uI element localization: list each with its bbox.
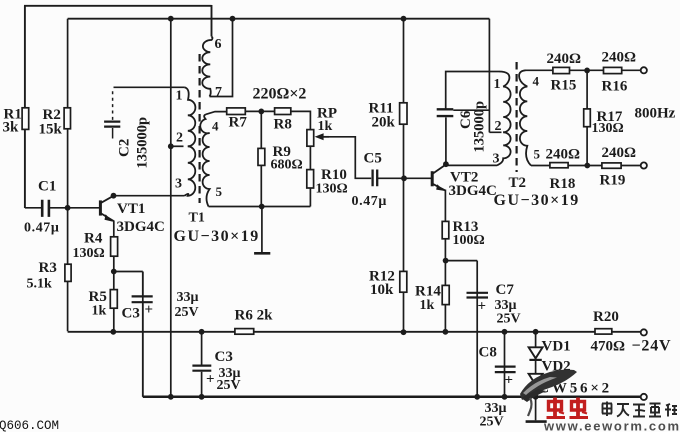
terminal -24V — [641, 329, 647, 335]
resistor R1 3k — [22, 108, 29, 130]
resistor R19 240ohm — [602, 163, 621, 168]
wire T2 tap-1 stub — [489, 71, 499, 73]
svg-text:1k: 1k — [420, 298, 435, 313]
resistor R7 220ohm — [227, 108, 246, 115]
svg-text:240Ω: 240Ω — [547, 51, 582, 67]
svg-text:www.eeworm.com: www.eeworm.com — [543, 419, 680, 432]
wire R9 branch — [260, 111, 262, 206]
node feedback/bottom rail — [168, 394, 174, 400]
T1 primary winding (pins 1-2-3) — [184, 87, 195, 196]
node R12/lower rail — [401, 329, 407, 335]
node R17/R18/R19 — [584, 163, 590, 169]
node C8/bottom rail — [502, 394, 508, 400]
resistor R18 240ohm — [550, 163, 568, 168]
svg-text:R7: R7 — [229, 114, 248, 130]
svg-text:R18: R18 — [550, 176, 576, 192]
svg-text:R3: R3 — [39, 260, 57, 276]
wire RP wiper to C5 — [318, 137, 371, 179]
node C7/bottom rail — [474, 394, 480, 400]
wire C1 left lead — [25, 207, 41, 209]
svg-text:33μ: 33μ — [177, 290, 199, 305]
wire R4/R5/C3 node branch — [114, 272, 143, 397]
zener diode VD1 2CW56 — [529, 347, 543, 358]
node C8/lower rail — [502, 329, 508, 335]
wire feedback line — [170, 19, 172, 397]
svg-text:T1: T1 — [189, 211, 205, 226]
svg-text:4: 4 — [533, 74, 540, 89]
T2 secondary winding (pins 4-5) — [519, 70, 531, 165]
T2 core — [515, 62, 517, 172]
capacitor C2 135000p — [104, 122, 120, 127]
wire C8 branch — [504, 332, 506, 397]
wire R17 branch — [586, 71, 588, 166]
svg-text:240Ω: 240Ω — [602, 49, 637, 65]
svg-text:100Ω: 100Ω — [453, 233, 485, 248]
svg-text:25V: 25V — [217, 378, 241, 393]
watermark bug glyph 2 — [570, 398, 589, 418]
svg-text:130Ω: 130Ω — [592, 121, 624, 136]
svg-text:C5: C5 — [364, 150, 382, 166]
resistor R15 240ohm — [553, 67, 570, 73]
node VD2/bottom rail — [533, 394, 539, 400]
svg-text:R19: R19 — [600, 172, 626, 188]
wire VT1 base — [68, 207, 100, 209]
node VD1/lower rail — [533, 329, 539, 335]
resistor R6 2k — [235, 329, 254, 335]
svg-text:20k: 20k — [372, 114, 396, 130]
resistor R20 470ohm — [595, 329, 612, 334]
svg-text:1: 1 — [494, 77, 501, 92]
svg-text:C3: C3 — [215, 349, 233, 365]
wire ground stem T1 — [261, 207, 263, 253]
svg-text:680Ω: 680Ω — [271, 157, 303, 172]
wire bottom common rail — [143, 396, 641, 399]
node rail/winding7 — [230, 16, 236, 22]
node R5/lower rail — [110, 329, 116, 335]
wire R2/R3 branch — [67, 19, 69, 332]
transistor VT1 3DG4C — [99, 200, 102, 215]
node C5/R11/VT2 base — [401, 175, 407, 181]
capacitor C5 0.47u — [373, 170, 378, 187]
node VT2 collector junction — [443, 161, 449, 167]
svg-text:2: 2 — [176, 130, 183, 145]
svg-text:GU−30×19: GU−30×19 — [174, 228, 260, 245]
svg-text:25V: 25V — [175, 305, 199, 320]
terminal output top — [641, 67, 647, 73]
capacitor C1 0.47u — [42, 200, 49, 217]
svg-text:+: + — [505, 372, 514, 388]
node R9/tap5/ground — [259, 204, 265, 210]
wire lower supply rail — [68, 331, 641, 333]
resistor R10 130ohm — [307, 170, 314, 188]
svg-text:1: 1 — [176, 88, 183, 103]
resistor R16 240ohm — [604, 67, 622, 73]
svg-text:GU−30×19: GU−30×19 — [494, 192, 580, 209]
svg-text:130Ω: 130Ω — [316, 181, 348, 196]
svg-text:C8: C8 — [479, 344, 497, 360]
svg-text:VT1: VT1 — [117, 201, 145, 217]
svg-text:25V: 25V — [497, 312, 521, 327]
wire C2 tap — [114, 86, 185, 88]
svg-text:5.1k: 5.1k — [27, 276, 53, 291]
wire T2 tap-4 to output — [526, 69, 642, 71]
capacitor C7 33u/25V — [467, 293, 489, 298]
svg-text:15k: 15k — [39, 121, 63, 137]
wire C6 bottom lead — [445, 117, 447, 163]
T2 primary winding (pins 1-2-3) — [497, 72, 511, 166]
svg-text:3: 3 — [493, 152, 500, 167]
svg-text:3: 3 — [175, 176, 182, 191]
svg-text:130Ω: 130Ω — [73, 246, 105, 261]
svg-text:25V: 25V — [480, 414, 504, 429]
resistor R13 100ohm — [442, 221, 449, 238]
T1 feedback winding (pins 6-7) — [202, 37, 212, 97]
resistor R9 680ohm — [258, 148, 265, 165]
resistor R5 1k — [110, 290, 117, 309]
T1 core — [199, 54, 201, 203]
resistor R17 130ohm — [584, 109, 591, 127]
svg-text:135000p: 135000p — [135, 117, 151, 169]
svg-text:R20: R20 — [593, 309, 619, 325]
resistor R3 5.1k — [65, 264, 71, 281]
svg-text:3DG4C: 3DG4C — [449, 183, 497, 199]
svg-text:−24V: −24V — [632, 337, 672, 354]
svg-text:+: + — [206, 371, 215, 387]
svg-text:+: + — [478, 298, 487, 314]
capacitor C6 135000p — [437, 109, 454, 116]
node C4/bottom rail — [199, 394, 205, 400]
svg-text:240Ω: 240Ω — [546, 146, 581, 162]
node R14/lower rail — [443, 329, 449, 335]
resistor R4 130ohm — [111, 237, 118, 256]
wire zener branch — [535, 332, 537, 397]
potentiometer RP 1k — [307, 130, 314, 147]
svg-text:R6 2k: R6 2k — [235, 307, 274, 323]
resistor R12 10k — [400, 271, 407, 292]
ground bottom — [526, 420, 547, 423]
svg-text:R15: R15 — [551, 77, 577, 93]
svg-text:0.47μ: 0.47μ — [24, 221, 59, 236]
terminal output bottom — [641, 162, 647, 168]
wire upper supply rail — [68, 18, 490, 20]
wire winding-7 return — [210, 19, 233, 97]
svg-text:R4: R4 — [84, 231, 103, 247]
node rail/R11 — [401, 16, 407, 22]
svg-text:C3: C3 — [122, 306, 140, 322]
node R7/R8/R9 — [258, 109, 264, 115]
svg-text:7: 7 — [215, 85, 222, 100]
transistor VT2 3DG4C — [431, 171, 434, 186]
node rail/feedback — [168, 16, 174, 22]
svg-text:C1: C1 — [38, 179, 56, 195]
node R15/R16/R17 — [584, 68, 590, 74]
svg-text:R8: R8 — [274, 116, 292, 132]
node R4/R5/C3 — [111, 269, 117, 275]
svg-text:240Ω: 240Ω — [602, 145, 637, 161]
capacitor C4 (C3) 33u/25V rail decoupling — [192, 366, 211, 371]
node C4/lower rail — [199, 329, 205, 335]
wire R7-R8 node — [245, 110, 274, 112]
node R13/R14/C7 — [443, 258, 449, 264]
svg-text:R14: R14 — [415, 283, 441, 299]
wire VT1 collector to T1 pin3 — [114, 195, 185, 197]
svg-text:0.47μ: 0.47μ — [352, 194, 387, 209]
svg-text:10k: 10k — [370, 282, 394, 298]
wire T1 tap-5 line — [209, 206, 311, 208]
watermark bug glyph 1 — [547, 398, 566, 418]
wire left rail from top border to C1 — [24, 6, 26, 208]
wire C1 right lead — [50, 207, 68, 209]
wire R11/R12 branch — [403, 19, 405, 333]
svg-text:2: 2 — [495, 119, 502, 134]
ground T1 secondary — [254, 252, 270, 255]
svg-text:1k: 1k — [92, 304, 107, 319]
capacitor C8 33u/25V — [495, 367, 516, 373]
wire T1 tap-4 to R7 — [206, 112, 227, 115]
svg-text:220Ω×2: 220Ω×2 — [253, 85, 307, 102]
resistor R2 15k — [64, 108, 70, 129]
svg-text:6: 6 — [215, 37, 222, 52]
svg-text:470Ω: 470Ω — [591, 338, 626, 354]
svg-text:800Hz: 800Hz — [635, 106, 676, 122]
wire top border — [24, 5, 212, 7]
node tap2 junction — [168, 143, 174, 149]
wire VT2 collector to T2 pin3 — [446, 164, 497, 166]
wire R13/R14/C7 node branch — [446, 261, 478, 397]
wire T1 tap-2 link — [171, 145, 184, 147]
svg-text:R16: R16 — [602, 78, 628, 94]
wire VT1 emitter chain — [113, 221, 115, 332]
wire C6 top link — [446, 72, 490, 109]
node VT1 collector junction — [111, 193, 117, 199]
terminal supply return — [641, 394, 647, 400]
wire T1 winding-6 feed — [211, 5, 213, 37]
svg-text:T2: T2 — [509, 175, 527, 191]
svg-text:C2: C2 — [117, 139, 133, 157]
svg-text:5: 5 — [216, 184, 223, 199]
resistor R8 220ohm — [275, 108, 291, 115]
wire R8 to RP — [291, 111, 311, 206]
node C1/R2/base — [65, 205, 71, 211]
watermark swoosh logo — [520, 370, 577, 400]
wire T2 tap-2 link — [453, 110, 501, 132]
resistor R11 20k — [400, 103, 407, 124]
svg-text:3k: 3k — [3, 120, 20, 136]
resistor R14 1k — [442, 285, 449, 304]
svg-text:Q606.COM: Q606.COM — [0, 419, 59, 432]
wire ground stem below rail — [535, 397, 537, 421]
capacitor C3 33u/25V emitter bypass — [132, 296, 153, 302]
svg-text:1k: 1k — [318, 119, 333, 134]
svg-text:VD1: VD1 — [542, 339, 571, 355]
svg-text:C7: C7 — [496, 282, 515, 298]
wire T2 tap-5 to output — [531, 165, 641, 167]
wire rail right corner — [488, 19, 490, 133]
zener diode VD2 2CW56 — [529, 374, 543, 385]
svg-text:135000p: 135000p — [472, 101, 488, 153]
svg-text:+: + — [145, 302, 154, 318]
watermark site name glyphs — [602, 402, 612, 417]
T1 secondary winding (pins 4-5) — [200, 114, 209, 206]
wire C5 to VT2 base — [378, 177, 431, 179]
svg-text:5: 5 — [534, 147, 541, 162]
svg-text:3DG4C: 3DG4C — [117, 219, 165, 235]
svg-text:4: 4 — [212, 118, 219, 133]
wire VT2 emitter chain — [444, 190, 446, 332]
